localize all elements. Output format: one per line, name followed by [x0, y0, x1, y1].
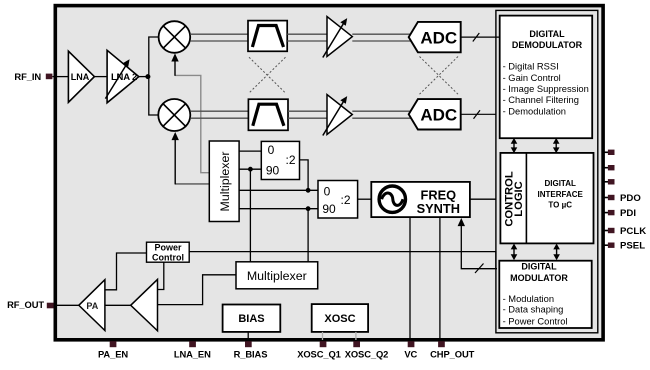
block divider D2 0/90: [318, 181, 358, 219]
svg-text:PDI: PDI: [620, 208, 636, 219]
node junction dot line90: [306, 206, 311, 211]
wire mux1 to divider D2 line90: [239, 208, 318, 210]
svg-text:TO µC: TO µC: [548, 201, 572, 210]
svg-text:DIGITAL: DIGITAL: [544, 179, 576, 188]
wire mux1 to divider D1 line90: [239, 168, 261, 170]
wire pair VGA1 to ADC1: [352, 33, 413, 35]
pin RF_IN: [46, 74, 53, 80]
svg-text:XOSC: XOSC: [324, 313, 355, 325]
svg-text:LNA_EN: LNA_EN: [174, 348, 211, 359]
wire LO arrow mixer1: [174, 59, 176, 76]
bus slash on modulator wire: [475, 264, 484, 274]
dashed cross X1: [249, 57, 286, 93]
filter F1: [248, 21, 287, 52]
wire node to mixer1: [149, 37, 159, 77]
svg-text:R_BIAS: R_BIAS: [234, 348, 268, 359]
svg-text:0: 0: [268, 143, 275, 157]
wire I-pair mixer1 to filter1: [190, 33, 248, 35]
node A junction: [145, 74, 150, 79]
wire Q-pair mixer2 to filter2: [190, 110, 248, 112]
block DIGITAL MODULATOR: [499, 261, 591, 328]
wire LO to mixer1 (gray): [175, 75, 209, 172]
wire bus ADC1 to demodulator: [461, 36, 500, 38]
svg-text:XOSC_Q1: XOSC_Q1: [297, 348, 341, 359]
mixer M2: [158, 99, 190, 131]
wire node to mixer2: [149, 77, 158, 115]
wire XOSC to XOSC_Q1 pin: [322, 332, 324, 340]
wire LO arrow mixer2: [174, 137, 176, 184]
pin PDI: [604, 212, 609, 214]
block BIAS: [223, 305, 281, 332]
svg-text:XOSC_Q2: XOSC_Q2: [345, 348, 389, 359]
oscillator symbol: [379, 186, 405, 212]
wire junction to MUX2 top: [307, 209, 309, 262]
wire driver to PA: [105, 304, 131, 306]
svg-text:- Digital RSSI: - Digital RSSI: [503, 62, 559, 72]
wire CHP_OUT from synth to pin: [439, 218, 441, 341]
wire power control to driver: [158, 262, 164, 289]
pin PSEL: [604, 244, 609, 246]
amplifier PA: [79, 280, 105, 331]
pin PA_EN: [110, 341, 117, 347]
svg-text:Power: Power: [154, 242, 182, 252]
chip body: [55, 6, 603, 340]
wire power control to PA: [106, 253, 147, 290]
svg-text:RF_OUT: RF_OUT: [7, 299, 44, 310]
block multiplexer MUX2: [236, 262, 318, 289]
amplifier VGA1: [327, 17, 352, 57]
amplifier LNA: [68, 51, 94, 102]
pin right 3: [604, 181, 609, 183]
svg-text:PSEL: PSEL: [620, 241, 645, 252]
svg-text:Multiplexer: Multiplexer: [247, 269, 307, 283]
pin XOSC_Q1: [320, 341, 327, 347]
svg-text:RF_IN: RF_IN: [14, 71, 41, 82]
amplifier LNA 2: [107, 50, 139, 103]
wire divider D2 to freq synth: [358, 198, 372, 200]
pin right 2: [604, 167, 609, 169]
wire divider D1 output to node: [300, 160, 309, 190]
block CONTROL LOGIC: [500, 153, 593, 244]
wire freq synth to control logic: [470, 198, 496, 200]
wire XOSC to XOSC_Q2 pin: [355, 332, 357, 340]
svg-text:- Demodulation: - Demodulation: [503, 106, 566, 116]
svg-text::2: :2: [340, 193, 350, 207]
arrow demod-control: [511, 138, 518, 153]
svg-text:BIAS: BIAS: [238, 313, 264, 325]
svg-text:SYNTH: SYNTH: [417, 201, 460, 216]
filter F2: [248, 99, 288, 130]
svg-text:- Channel Filtering: - Channel Filtering: [503, 95, 579, 105]
node junction dot line0: [306, 188, 311, 193]
pin XOSC_Q2: [353, 341, 360, 347]
block U1 DIGITAL DEMODULATOR: [500, 16, 593, 139]
pin PDO: [604, 197, 609, 199]
pin VC: [408, 341, 415, 347]
svg-text:DIGITAL: DIGITAL: [529, 29, 565, 39]
wire BIAS to R_BIAS pin: [247, 332, 249, 340]
svg-text:90: 90: [266, 164, 280, 178]
svg-text:LOGIC: LOGIC: [513, 181, 525, 216]
block Power Control: [147, 242, 190, 262]
wire RF_IN to LNA: [53, 76, 69, 78]
svg-text:MODULATOR: MODULATOR: [510, 273, 568, 283]
svg-text:INTERFACE: INTERFACE: [538, 190, 584, 199]
block divider D1 0/90: [261, 141, 299, 179]
wire pair filter1 to VGA1: [287, 33, 327, 35]
arrow interface-modulator left: [511, 244, 518, 261]
pin R_BIAS: [245, 341, 252, 347]
amplifier VGA2: [327, 95, 352, 135]
svg-text:PCLK: PCLK: [620, 226, 646, 237]
svg-text:90: 90: [322, 202, 336, 216]
svg-text:Multiplexer: Multiplexer: [218, 152, 232, 212]
svg-text:DIGITAL: DIGITAL: [521, 262, 557, 272]
pin PCLK: [604, 230, 609, 232]
wire PA to RF_OUT: [54, 304, 79, 306]
svg-text:ADC: ADC: [420, 28, 457, 47]
wire LNA2 to node: [139, 76, 149, 78]
ADC 2: [409, 99, 461, 129]
wire LO to mixer2: [175, 183, 209, 185]
wire junction down to MUX2: [249, 169, 251, 262]
wire pair VGA2 to ADC2: [352, 110, 413, 112]
svg-text:- Gain Control: - Gain Control: [503, 73, 561, 83]
svg-text:- Image Suppression: - Image Suppression: [503, 84, 589, 94]
pin LNA_EN: [189, 341, 196, 347]
mixer M1: [159, 21, 191, 53]
pin CHP_OUT: [438, 341, 445, 347]
svg-text:PA: PA: [86, 301, 98, 311]
arrow interface-modulator right: [553, 244, 560, 261]
arrow demod-interface: [553, 138, 560, 153]
svg-text:LNA 2: LNA 2: [111, 72, 137, 83]
ADC 1: [409, 22, 461, 52]
wire mux2 to driver amp: [158, 275, 236, 305]
amplifier driver: [131, 279, 158, 330]
pin right 1: [604, 151, 609, 153]
wire LNA to LNA2: [94, 76, 107, 78]
wire power control to modulator: [189, 252, 496, 269]
svg-text:DEMODULATOR: DEMODULATOR: [512, 40, 583, 50]
dashed cross X2: [420, 57, 459, 95]
node junction dot on 90 line: [248, 167, 253, 172]
block FREQ SYNTH: [371, 182, 470, 217]
svg-text:VC: VC: [404, 348, 417, 359]
wire mux1 to divider D2 line0: [239, 189, 318, 191]
svg-text:PDO: PDO: [620, 193, 641, 204]
wire modulator to freq synth with arrow: [461, 223, 497, 269]
svg-text:ADC: ADC: [420, 106, 457, 125]
svg-text:- Data shaping: - Data shaping: [503, 305, 564, 315]
svg-text::2: :2: [285, 153, 295, 167]
wire pair filter2 to VGA2: [288, 110, 327, 112]
svg-text:Control: Control: [152, 253, 184, 263]
svg-text:- Modulation: - Modulation: [503, 294, 554, 304]
block XOSC: [312, 304, 368, 332]
svg-text:- Power Control: - Power Control: [503, 316, 568, 326]
svg-text:0: 0: [324, 185, 331, 199]
wire bus ADC2 to demodulator: [461, 113, 496, 115]
svg-text:LNA: LNA: [71, 72, 90, 82]
block multiplexer MUX1 (vertical): [209, 141, 239, 222]
wire mux1 to divider D1 line0: [239, 150, 261, 152]
pin RF_OUT: [47, 303, 54, 309]
digital section outer box: [496, 10, 598, 332]
svg-text:PA_EN: PA_EN: [98, 348, 128, 359]
svg-text:CHP_OUT: CHP_OUT: [430, 348, 474, 359]
wire VC from synth to pin: [409, 218, 411, 341]
